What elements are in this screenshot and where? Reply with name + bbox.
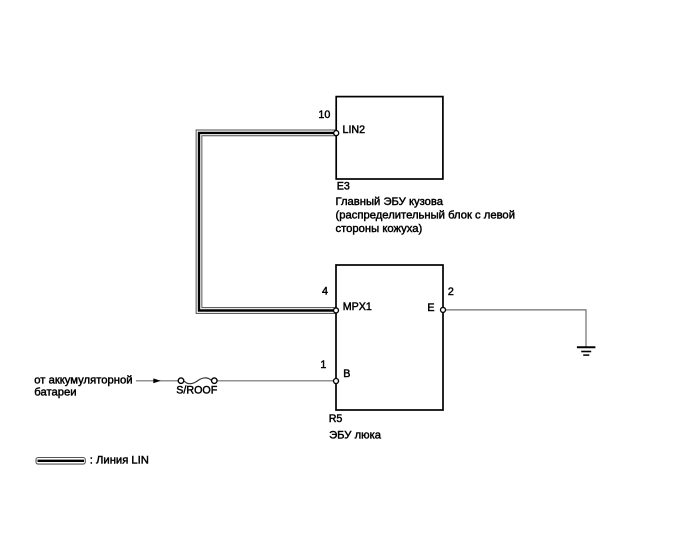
ECU box E3 — [336, 97, 443, 179]
wire from fuse to R5 pin 1 — [217, 380, 334, 382]
svg-text:S/ROOF: S/ROOF — [176, 384, 217, 396]
svg-text:ЭБУ люка: ЭБУ люка — [329, 429, 382, 441]
wire from battery arrow to fuse S/ROOF — [136, 380, 178, 382]
svg-text:2: 2 — [448, 286, 454, 298]
pin B terminal circle (R5 pin 1) — [334, 379, 339, 384]
pin E terminal circle (R5 pin 2) — [441, 307, 446, 312]
arrowhead battery feed — [153, 378, 160, 383]
svg-text:от аккумуляторной: от аккумуляторной — [34, 375, 132, 387]
ground symbol — [577, 347, 596, 355]
svg-text:10: 10 — [318, 109, 330, 121]
svg-text:B: B — [343, 368, 350, 380]
svg-text:батареи: батареи — [34, 386, 76, 398]
svg-text:LIN2: LIN2 — [343, 124, 366, 136]
svg-text:1: 1 — [320, 359, 326, 371]
ECU box R5 — [336, 265, 443, 410]
pin LIN2 terminal circle (E3 pin 10) — [334, 131, 339, 136]
wire LIN (double line) from E3 pin 10 to R5 pin 4 — [199, 133, 336, 311]
fuse S/ROOF right terminal — [212, 378, 218, 384]
svg-text:4: 4 — [322, 285, 328, 297]
fuse S/ROOF left terminal — [178, 378, 184, 384]
legend LIN line sample — [36, 458, 85, 465]
svg-text:R5: R5 — [329, 413, 343, 425]
svg-text:E3: E3 — [337, 181, 350, 193]
svg-text:MPX1: MPX1 — [343, 301, 372, 313]
svg-text:E: E — [427, 302, 434, 314]
svg-text:(распределительный блок с лево: (распределительный блок с левой — [336, 209, 515, 221]
fuse S/ROOF squiggle — [184, 378, 211, 384]
svg-text:стороны кожуха): стороны кожуха) — [336, 223, 423, 235]
svg-text:Главный ЭБУ кузова: Главный ЭБУ кузова — [336, 196, 444, 208]
wire from R5 pin 2 (E) to ground — [446, 310, 586, 347]
svg-text:: Линия LIN: : Линия LIN — [90, 454, 149, 466]
pin MPX1 terminal circle (R5 pin 4) — [334, 308, 339, 313]
